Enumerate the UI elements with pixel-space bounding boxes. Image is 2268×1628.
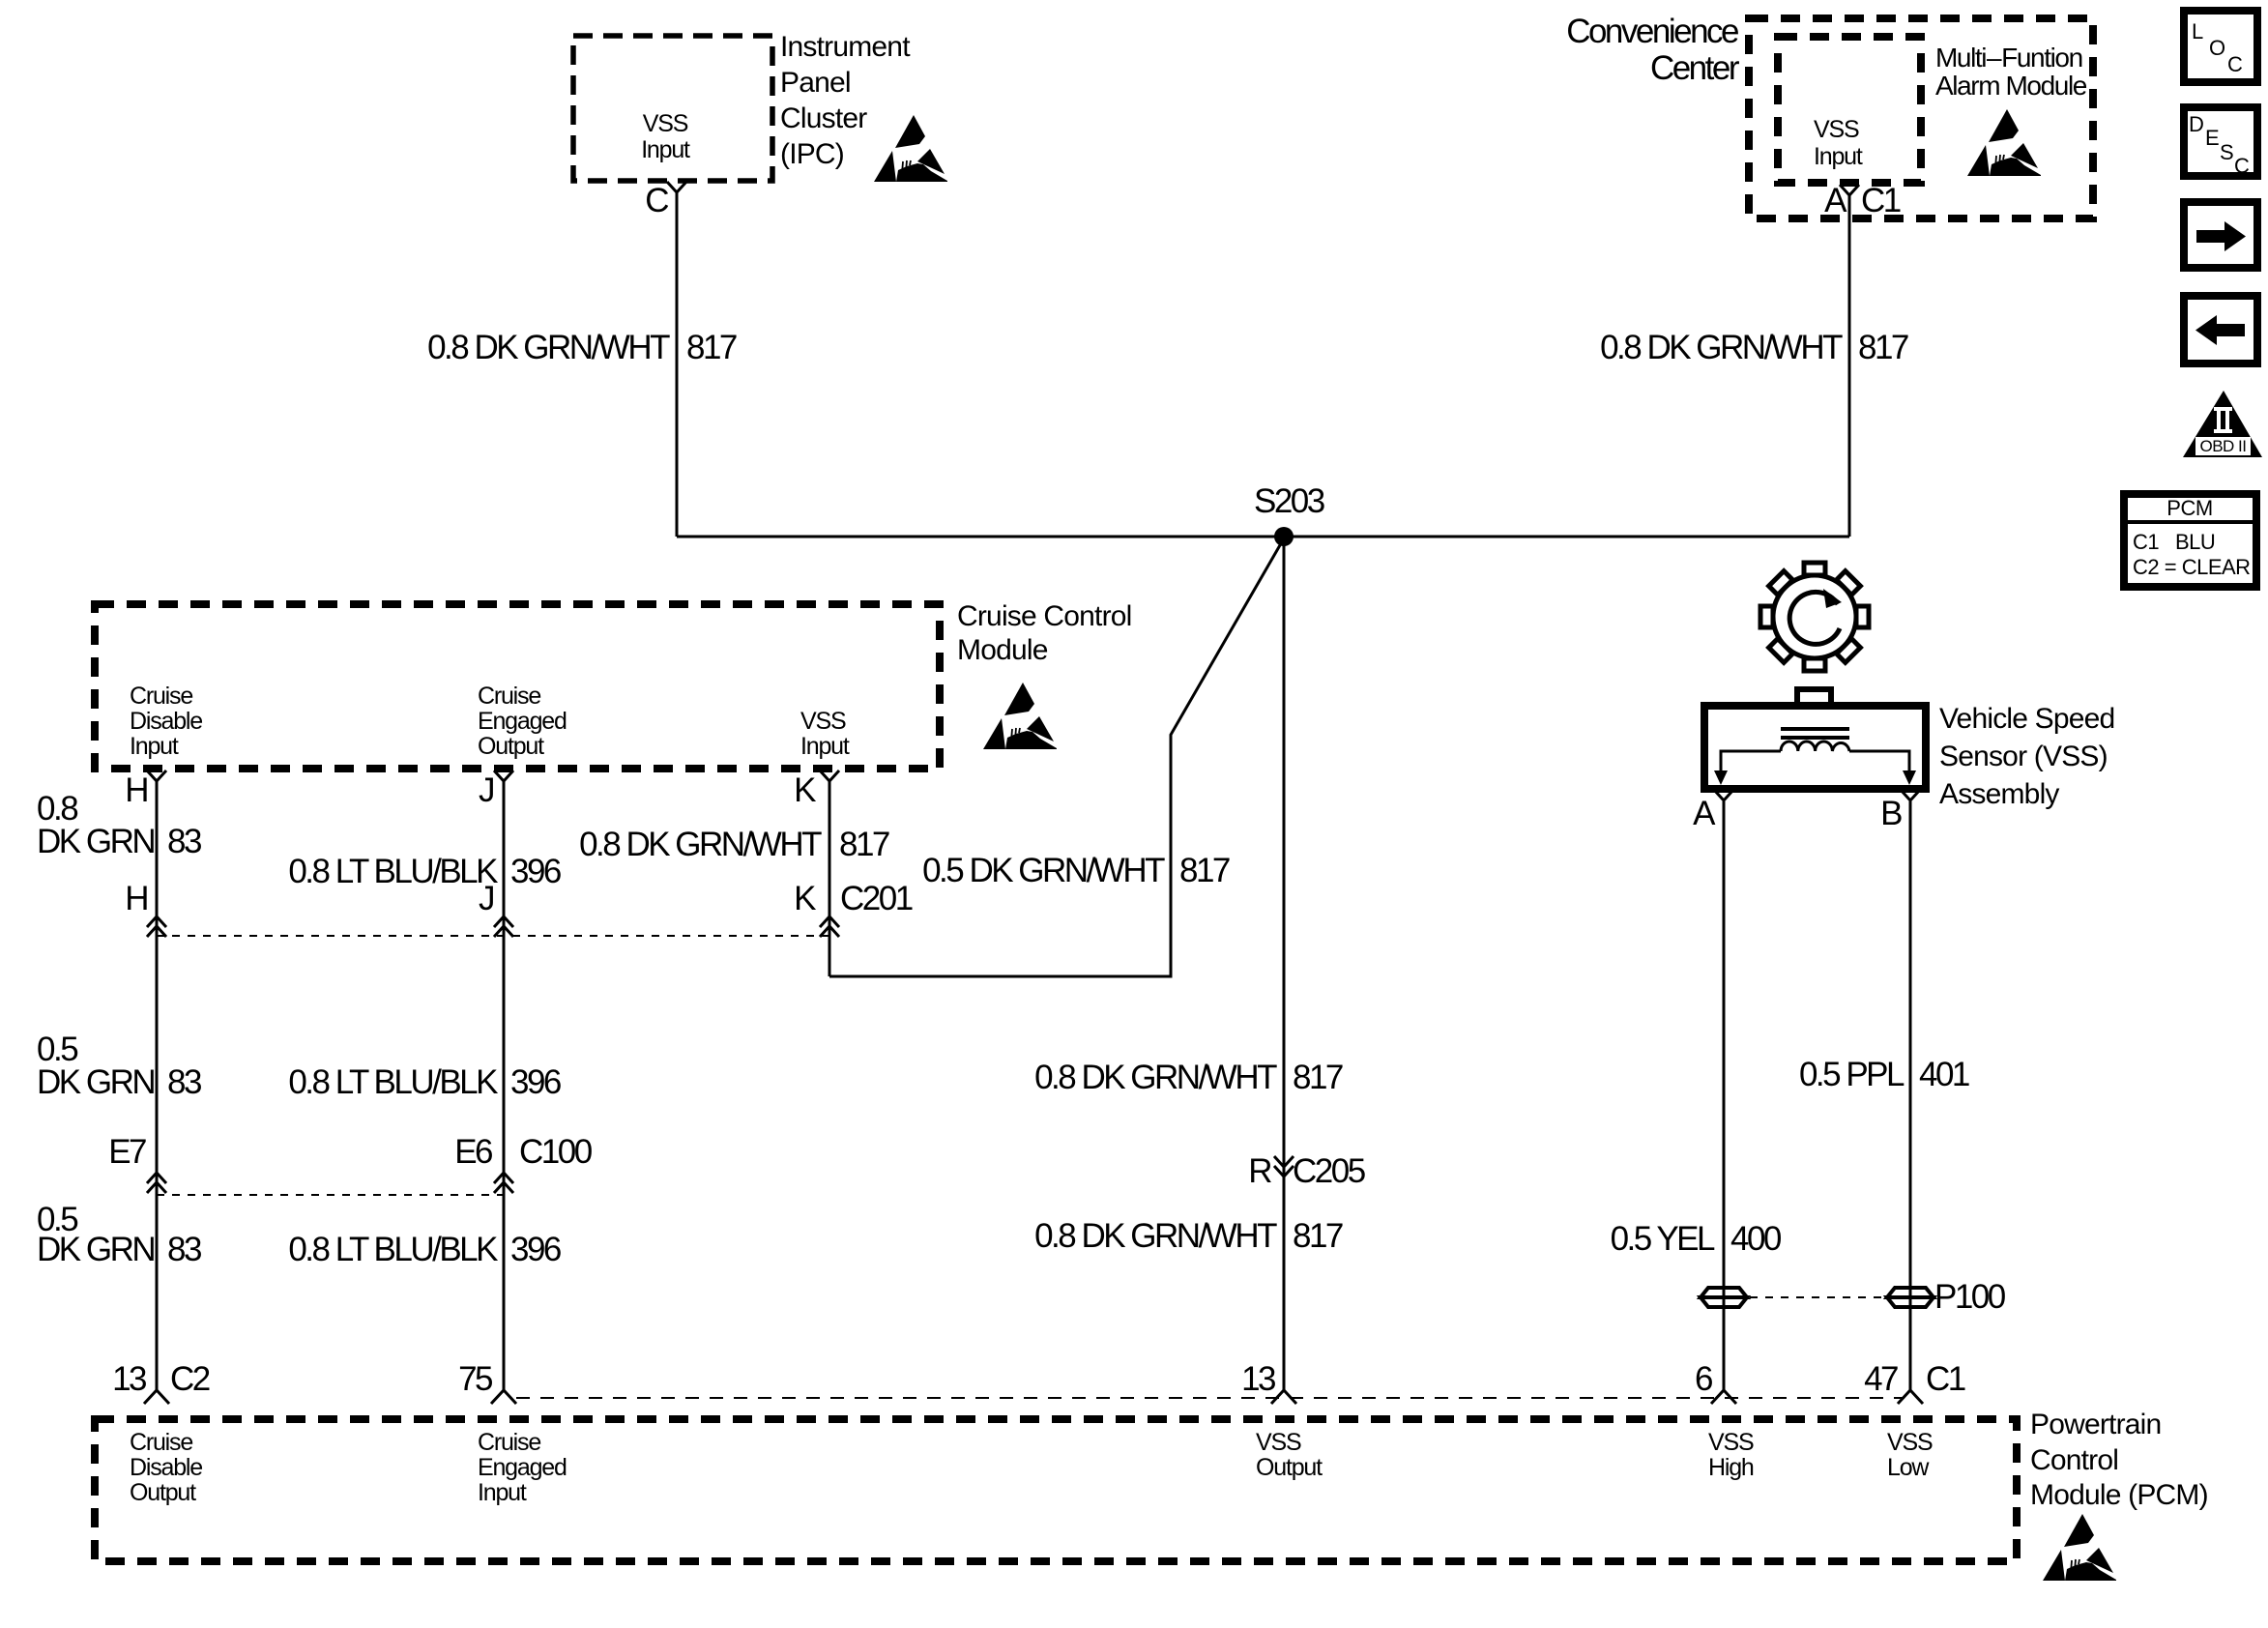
svg-text:817: 817 [839, 826, 889, 863]
svg-text:401: 401 [1919, 1056, 1969, 1093]
connector C100 chevrons [147, 1173, 166, 1193]
pin B [1901, 790, 1920, 800]
svg-text:Input: Input [800, 733, 850, 760]
ESD symbol PCM [2043, 1514, 2116, 1581]
svg-text:VSS: VSS [1256, 1429, 1301, 1456]
connector P100 dashed link [1750, 1296, 1885, 1298]
svg-text:396: 396 [510, 1231, 561, 1268]
sensor top tab [1797, 689, 1831, 706]
svg-text:O: O [2209, 36, 2225, 60]
svg-text:Output: Output [130, 1479, 196, 1506]
svg-text:13: 13 [112, 1360, 146, 1398]
svg-text:83: 83 [167, 823, 201, 860]
svg-text:83: 83 [167, 1231, 201, 1268]
module box Convenience Center [1749, 18, 2093, 218]
pin C of IPC [667, 182, 686, 192]
svg-text:83: 83 [167, 1063, 201, 1101]
svg-text:0.8 LT BLU/BLK: 0.8 LT BLU/BLK [288, 1063, 498, 1101]
svg-text:C100: C100 [519, 1133, 593, 1171]
svg-text:B: B [1880, 795, 1902, 832]
wire H down [156, 781, 159, 1390]
svg-text:Sensor (VSS): Sensor (VSS) [1939, 741, 2108, 772]
svg-text:Output: Output [478, 733, 544, 760]
svg-text:C2: C2 [170, 1360, 210, 1398]
svg-text:0.5 PPL: 0.5 PPL [1799, 1056, 1905, 1093]
svg-text:J: J [479, 771, 493, 809]
wire bus S203 [677, 536, 1849, 538]
pin K [820, 770, 839, 781]
connector C201 dashed line [157, 935, 829, 937]
svg-text:C1: C1 [1926, 1360, 1965, 1398]
svg-text:Input: Input [478, 1479, 527, 1506]
svg-text:396: 396 [510, 1063, 561, 1101]
svg-text:817: 817 [1293, 1217, 1343, 1255]
svg-text:Panel: Panel [780, 67, 851, 99]
coil [1781, 741, 1849, 751]
svg-text:C1: C1 [1861, 182, 1901, 219]
connector C201 chevrons [147, 916, 166, 937]
connector C100 dashed line [157, 1194, 504, 1196]
svg-text:Disable: Disable [130, 708, 202, 735]
svg-text:VSS: VSS [643, 110, 688, 137]
svg-text:Engaged: Engaged [478, 1454, 567, 1481]
svg-text:Engaged: Engaged [478, 708, 567, 735]
svg-text:Instrument: Instrument [780, 31, 911, 63]
pin H [147, 770, 166, 781]
DESC box [2184, 107, 2257, 178]
wire B down [1909, 801, 1912, 1390]
svg-text:C1 BLU: C1 BLU [2133, 530, 2215, 554]
svg-text:Input: Input [1814, 143, 1863, 170]
svg-text:J: J [479, 880, 493, 917]
svg-text:E6: E6 [454, 1133, 492, 1171]
svg-text:DK GRN: DK GRN [37, 823, 154, 860]
svg-text:Input: Input [641, 136, 690, 163]
svg-text:Cruise: Cruise [478, 683, 540, 710]
connector P100 grommet left [1701, 1288, 1747, 1307]
wire J down [503, 781, 506, 1390]
connector P100 grommet right [1887, 1288, 1934, 1307]
svg-text:75: 75 [458, 1360, 492, 1398]
svg-text:0.8 DK GRN/WHT: 0.8 DK GRN/WHT [427, 329, 670, 366]
OBD II triangle [2183, 391, 2262, 457]
wire A down [1723, 801, 1726, 1390]
svg-text:Disable: Disable [130, 1454, 202, 1481]
svg-text:DK GRN: DK GRN [37, 1063, 154, 1101]
svg-text:C201: C201 [840, 880, 913, 917]
svg-text:VSS: VSS [800, 708, 846, 735]
svg-text:817: 817 [1293, 1059, 1343, 1096]
svg-text:Cruise: Cruise [130, 1429, 192, 1456]
PCM pin chevrons [144, 1390, 169, 1404]
wire C to S203 [676, 192, 679, 537]
svg-text:0.8 LT BLU/BLK: 0.8 LT BLU/BLK [288, 1231, 498, 1268]
module box VSS Input (inner) [1778, 37, 1921, 183]
svg-text:Alarm Module: Alarm Module [1935, 71, 2087, 101]
svg-text:Assembly: Assembly [1939, 778, 2059, 810]
svg-text:L: L [2192, 19, 2203, 44]
svg-text:VSS: VSS [1814, 116, 1859, 143]
svg-text:Low: Low [1887, 1454, 1930, 1481]
svg-text:E: E [2205, 126, 2219, 150]
right arrow box [2184, 202, 2257, 268]
svg-text:817: 817 [1179, 852, 1230, 889]
svg-text:47: 47 [1864, 1360, 1898, 1398]
svg-text:Center: Center [1650, 49, 1740, 87]
wire A to S203 [1848, 194, 1851, 537]
rotation arrow [1789, 592, 1840, 644]
svg-text:400: 400 [1730, 1220, 1782, 1258]
coil leads with arrows [1721, 751, 1781, 773]
PCM internal thin dashed bus [516, 1397, 1905, 1399]
svg-text:Module (PCM): Module (PCM) [2030, 1479, 2208, 1511]
svg-text:Vehicle Speed: Vehicle Speed [1939, 703, 2114, 735]
svg-text:Cruise Control: Cruise Control [957, 600, 1132, 632]
svg-text:H: H [125, 880, 147, 917]
svg-text:K: K [794, 880, 816, 917]
module box IPC [573, 36, 772, 181]
svg-text:Multi – Funtion: Multi – Funtion [1935, 43, 2082, 73]
svg-text:Control: Control [2030, 1444, 2118, 1476]
svg-text:Output: Output [1256, 1454, 1323, 1481]
core lines [1781, 727, 1849, 731]
module box PCM [95, 1419, 2017, 1561]
svg-text:Powertrain: Powertrain [2030, 1409, 2161, 1440]
svg-text:Cruise: Cruise [130, 683, 192, 710]
svg-text:0.8 DK GRN/WHT: 0.8 DK GRN/WHT [1600, 329, 1843, 366]
left arrow box [2184, 296, 2257, 363]
connector C205 chevrons [1274, 1156, 1294, 1177]
svg-text:S: S [2220, 140, 2233, 164]
node S203 [1274, 527, 1294, 546]
svg-text:13: 13 [1241, 1360, 1275, 1398]
svg-text:High: High [1708, 1454, 1754, 1481]
pin A [1714, 790, 1733, 800]
svg-text:K: K [794, 771, 816, 809]
svg-text:R: R [1248, 1152, 1271, 1190]
svg-text:Module: Module [957, 634, 1048, 666]
svg-text:H: H [125, 771, 147, 809]
svg-text:(IPC): (IPC) [780, 138, 844, 170]
svg-text:S203: S203 [1254, 482, 1324, 520]
svg-text:VSS: VSS [1887, 1429, 1933, 1456]
ESD symbol IPC [874, 115, 947, 182]
svg-text:396: 396 [510, 853, 561, 890]
svg-text:C205: C205 [1293, 1152, 1365, 1190]
svg-text:0.8 DK GRN/WHT: 0.8 DK GRN/WHT [579, 826, 822, 863]
svg-text:6: 6 [1695, 1360, 1712, 1398]
pin J [494, 770, 513, 781]
svg-text:C: C [2227, 52, 2243, 76]
wire S203 down to PCM pin 13 [1283, 537, 1286, 1390]
svg-text:P100: P100 [1934, 1278, 2006, 1316]
svg-text:D: D [2189, 112, 2203, 136]
sensor box [1704, 706, 1926, 789]
svg-text:817: 817 [1858, 329, 1908, 366]
svg-text:A: A [1824, 182, 1847, 219]
gear wheel [1760, 563, 1869, 671]
svg-text:Cruise: Cruise [478, 1429, 540, 1456]
svg-text:Convenience: Convenience [1566, 13, 1738, 50]
ESD symbol convenience [1967, 109, 2041, 176]
module box cruise control [95, 604, 940, 769]
svg-text:0.8 DK GRN/WHT: 0.8 DK GRN/WHT [1034, 1059, 1277, 1096]
wire diagonal S203 branch [829, 538, 1284, 976]
svg-text:E7: E7 [108, 1133, 146, 1171]
svg-text:DK GRN: DK GRN [37, 1231, 154, 1268]
svg-text:A: A [1693, 795, 1716, 832]
svg-text:0.5 YEL: 0.5 YEL [1611, 1220, 1715, 1258]
pin A C1 of alarm module [1840, 185, 1859, 195]
svg-text:Input: Input [130, 733, 179, 760]
ESD symbol cruise [983, 683, 1057, 749]
svg-text:VSS: VSS [1708, 1429, 1754, 1456]
svg-text:0.8 DK GRN/WHT: 0.8 DK GRN/WHT [1034, 1217, 1277, 1255]
svg-text:C2 = CLEAR: C2 = CLEAR [2133, 555, 2251, 579]
svg-text:PCM: PCM [2166, 496, 2212, 520]
svg-text:C: C [645, 182, 668, 219]
svg-text:OBD II: OBD II [2199, 437, 2246, 455]
svg-text:C: C [2234, 154, 2250, 178]
svg-text:0.5 DK GRN/WHT: 0.5 DK GRN/WHT [922, 852, 1165, 889]
PCM connector legend table [2124, 494, 2256, 587]
svg-text:817: 817 [686, 329, 737, 366]
svg-text:Cluster: Cluster [780, 102, 867, 134]
wire K down [829, 781, 831, 976]
LOC box [2184, 11, 2257, 82]
svg-text:0.8 LT BLU/BLK: 0.8 LT BLU/BLK [288, 853, 498, 890]
